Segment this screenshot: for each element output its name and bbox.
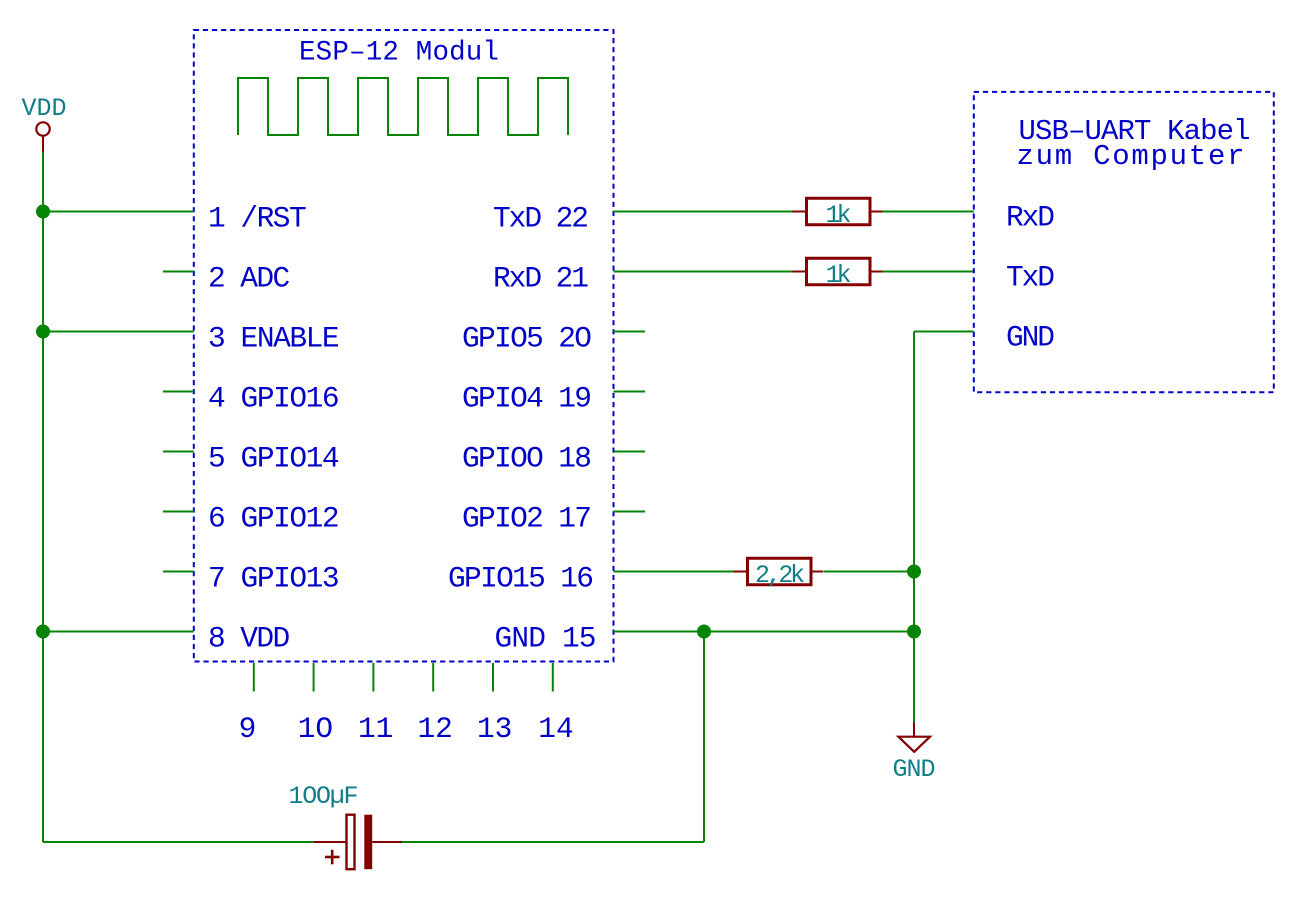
resistor 1k	[793, 271, 807, 273]
junction (43,631.5)	[36, 625, 50, 639]
ESP-12 module box U1	[194, 30, 614, 662]
svg-text:TxD: TxD	[1006, 261, 1055, 295]
pin stub right row 6	[614, 511, 646, 513]
pin stub right row 4	[614, 391, 646, 393]
power symbol VDD	[36, 122, 49, 135]
svg-text:5 GPIO14: 5 GPIO14	[208, 441, 340, 475]
svg-text:RxD 21: RxD 21	[493, 261, 589, 295]
pin 10 stub	[313, 663, 315, 692]
pin 4 stub	[163, 391, 194, 393]
svg-text:6 GPIO12: 6 GPIO12	[208, 501, 340, 535]
junction (704,631.5)	[697, 625, 711, 639]
pin 6 stub	[163, 511, 194, 513]
svg-text:1OOµF: 1OOµF	[289, 782, 359, 811]
GND net vertical wire	[913, 332, 915, 723]
wire resistor to USB box	[881, 211, 974, 213]
wire TxD/RxD to resistor	[614, 211, 796, 213]
svg-text:2 ADC: 2 ADC	[208, 261, 290, 295]
svg-text:2,2k: 2,2k	[755, 561, 805, 590]
svg-text:TxD 22: TxD 22	[493, 201, 589, 235]
svg-text:ESP–12 Modul: ESP–12 Modul	[299, 38, 499, 69]
wire TxD/RxD to resistor	[614, 271, 796, 273]
svg-text:1k: 1k	[826, 261, 852, 290]
wire resistor to USB box	[881, 271, 974, 273]
svg-text:11: 11	[358, 712, 393, 746]
pin 7 stub	[163, 571, 194, 573]
svg-text:GND 15: GND 15	[495, 621, 597, 655]
svg-text:9: 9	[239, 712, 257, 746]
pin 2 stub	[163, 271, 194, 273]
wire VDD rail to pin 3	[43, 331, 194, 333]
svg-text:12: 12	[417, 712, 452, 746]
bottom wire from capacitor	[402, 841, 704, 843]
svg-text:GPIO4 19: GPIO4 19	[462, 381, 592, 415]
svg-text:GND: GND	[893, 755, 936, 784]
svg-text:GPIOO 18: GPIOO 18	[462, 441, 592, 475]
VDD rail vertical wire	[42, 152, 44, 843]
wire USB GND	[914, 331, 974, 333]
pin stub right row 5	[614, 451, 646, 453]
svg-text:VDD: VDD	[22, 94, 67, 123]
wire GPIO15 to R3	[614, 571, 735, 573]
svg-text:zum Computer: zum Computer	[1017, 140, 1245, 173]
wire R3 to GND net	[824, 571, 914, 573]
svg-text:1k: 1k	[826, 201, 852, 230]
pin 11 stub	[372, 663, 374, 692]
svg-text:GND: GND	[1006, 321, 1055, 355]
svg-text:7 GPIO13: 7 GPIO13	[208, 561, 340, 595]
svg-text:4 GPIO16: 4 GPIO16	[208, 381, 340, 415]
svg-text:1O: 1O	[298, 712, 333, 746]
wire GND15 across	[614, 631, 915, 633]
resistor 1k	[793, 211, 807, 213]
pin stub right row 3	[614, 331, 646, 333]
vertical wire to GND15	[703, 632, 705, 843]
bottom wire to capacitor	[43, 841, 314, 843]
svg-text:8 VDD: 8 VDD	[208, 621, 290, 655]
svg-text:GPIO5 2O: GPIO5 2O	[462, 321, 592, 355]
pin 14 stub	[552, 663, 554, 692]
pin 5 stub	[163, 451, 194, 453]
wire VDD rail to pin 8	[43, 631, 194, 633]
wire VDD rail to pin 1	[43, 211, 194, 213]
svg-text:GPIO15 16: GPIO15 16	[448, 561, 594, 595]
pin 12 stub	[432, 663, 434, 692]
resistor 2,2k	[734, 571, 748, 573]
svg-text:RxD: RxD	[1006, 201, 1055, 235]
pin 13 stub	[492, 663, 494, 692]
junction (43,211.5)	[36, 205, 50, 219]
junction (914,571.5)	[907, 565, 921, 579]
svg-text:3 ENABLE: 3 ENABLE	[208, 321, 340, 355]
pin 9 stub	[253, 663, 255, 692]
USB-UART cable box	[974, 92, 1274, 392]
svg-text:1 /RST: 1 /RST	[208, 201, 307, 235]
plus sign (capacitor polarity)	[325, 856, 340, 859]
svg-text:GPIO2 17: GPIO2 17	[462, 501, 592, 535]
ground symbol	[913, 722, 915, 736]
junction (43,331.5)	[36, 325, 50, 339]
svg-text:13: 13	[477, 712, 512, 746]
antenna symbol (square wave)	[238, 78, 568, 135]
junction (914,631.5)	[907, 625, 921, 639]
capacitor C1 100µF polarized	[314, 841, 347, 843]
svg-text:14: 14	[538, 712, 573, 746]
